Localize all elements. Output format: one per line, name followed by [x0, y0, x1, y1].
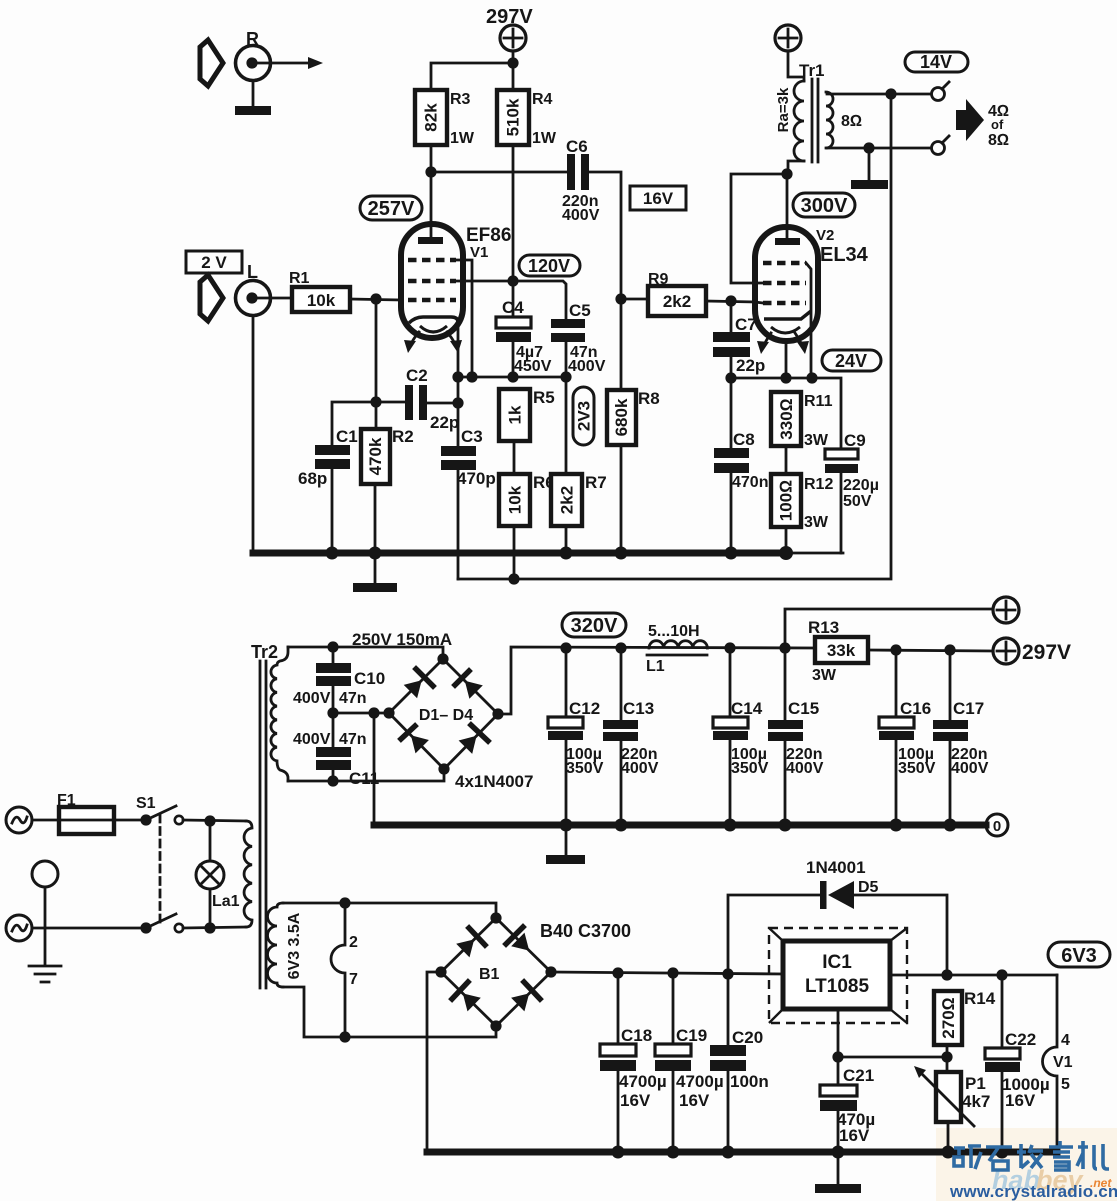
wire C8 leads: [730, 378, 733, 553]
wire fuse to switch: [114, 819, 145, 822]
svg-text:330Ω: 330Ω: [777, 398, 796, 439]
V2 heater arrow left: [757, 333, 771, 354]
V1 heater arrow right: [447, 332, 462, 353]
tube V2 EL34 envelope: [755, 227, 818, 341]
diode B1 bottom-left: [452, 982, 481, 1011]
diode B1 top-left: [456, 928, 485, 957]
node 2V label: [186, 251, 242, 273]
svg-text:www.crystalradio.cn: www.crystalradio.cn: [949, 1182, 1117, 1201]
svg-text:R2: R2: [392, 427, 414, 446]
wire R6 to feedback line: [513, 526, 516, 579]
diode D2 top-right: [455, 671, 483, 699]
svg-text:C12: C12: [569, 699, 600, 718]
svg-text:IC1: IC1: [822, 952, 852, 973]
node 0V output terminal: [986, 814, 1008, 836]
ground earth symbol: [29, 966, 61, 982]
capacitor C12 100u: [548, 699, 604, 777]
svg-text:350V: 350V: [566, 760, 604, 777]
svg-text:6V3 3.5A: 6V3 3.5A: [286, 912, 303, 979]
wire adj to R14-P1: [838, 1056, 947, 1059]
resistor R7 2k2: [551, 473, 607, 526]
capacitor C3 470p: [441, 427, 496, 488]
wire C11 leads: [332, 713, 335, 781]
capacitor C16 100u: [879, 699, 936, 777]
svg-text:6V3: 6V3: [1061, 945, 1097, 967]
svg-text:of: of: [991, 117, 1004, 132]
wire HV top to bridge: [288, 647, 443, 660]
svg-text:R8: R8: [638, 389, 660, 408]
resistor R2 470k: [361, 427, 414, 484]
watermark habpey: [992, 1165, 1112, 1195]
V2 grid g2: [763, 281, 806, 285]
wire 6V3 top to bridge B1: [283, 903, 496, 918]
wire cathode row: [458, 376, 566, 379]
node heater rail junctions: [612, 967, 733, 979]
svg-text:C18: C18: [621, 1026, 652, 1045]
wire R7 to bus: [565, 526, 568, 553]
svg-text:V1: V1: [1053, 1054, 1073, 1071]
svg-text:47n: 47n: [339, 690, 367, 707]
wire C21 leads: [837, 1057, 840, 1152]
svg-text:R11: R11: [804, 393, 833, 410]
svg-text:S1: S1: [136, 795, 156, 812]
V1 grid g3: [408, 258, 456, 262]
wire 6V3 bottom to bridge B1: [283, 987, 496, 1037]
node 297V supply: [486, 6, 533, 51]
capacitor C1 68p: [298, 427, 358, 488]
wire Tr1 primary bottom to anode node: [788, 161, 804, 174]
node 24V label: [822, 350, 881, 371]
node secondary ground tap: [863, 142, 874, 153]
wire R1 to V1 g1: [350, 299, 401, 300]
fuse F1: [57, 792, 114, 834]
svg-text:5...10H: 5...10H: [648, 623, 700, 640]
node 257V label: [360, 196, 422, 220]
wire g3 exit to drop: [456, 260, 472, 377]
capacitor C2 22p: [405, 366, 459, 432]
svg-text:82k: 82k: [422, 103, 441, 132]
V1 anode plate: [418, 237, 443, 244]
svg-text:14V: 14V: [920, 52, 952, 72]
output terminal top: [932, 82, 950, 101]
svg-text:400V: 400V: [293, 690, 331, 707]
svg-text:C4: C4: [502, 298, 524, 317]
wire bridge left to 0V bus: [373, 713, 376, 822]
wire screen strap to anode: [731, 174, 787, 283]
wire neutral to switch: [32, 927, 146, 930]
node 0V bus junctions: [560, 819, 957, 832]
V2 heater arc: [771, 327, 800, 333]
V1 heater pins 4-5: [1043, 975, 1073, 1152]
node bottom bus junctions: [612, 1146, 1009, 1159]
node g1 junction: [370, 293, 381, 304]
svg-text:B40 C3700: B40 C3700: [540, 921, 631, 941]
svg-text:C15: C15: [788, 699, 819, 718]
label V2 EL34: [816, 227, 869, 266]
svg-text:3W: 3W: [804, 514, 829, 531]
capacitor C18 4700u: [600, 1026, 667, 1110]
svg-text:10k: 10k: [307, 291, 336, 310]
node 6V3 label: [1048, 942, 1110, 967]
svg-text:0: 0: [993, 818, 1001, 835]
svg-text:1W: 1W: [450, 130, 475, 147]
node V2 heater junction bottom: [339, 1031, 350, 1042]
transformer Tr2 6V3 winding: [268, 903, 284, 987]
svg-text:257V: 257V: [368, 198, 415, 220]
transformer Tr2 core: [260, 661, 266, 988]
svg-text:320V: 320V: [571, 615, 618, 637]
resistor R5 1k: [499, 388, 555, 441]
wire C13 leads: [620, 648, 623, 825]
mains neutral terminal: [6, 915, 32, 941]
wire IC1 output rail: [890, 974, 1057, 977]
potentiometer P1 4k7: [914, 1066, 990, 1126]
svg-text:LT1085: LT1085: [805, 976, 870, 997]
svg-text:270Ω: 270Ω: [939, 997, 958, 1038]
svg-text:470k: 470k: [366, 437, 385, 475]
V2 anode plate: [775, 238, 800, 245]
svg-text:350V: 350V: [731, 760, 769, 777]
wire C12 leads: [565, 648, 568, 854]
wire g1 stub: [755, 302, 763, 303]
wire live to fuse: [32, 819, 59, 822]
heater 0V bus: [427, 1149, 1057, 1156]
svg-text:R1: R1: [289, 270, 310, 287]
node C2 junction right: [452, 397, 463, 408]
svg-text:2k2: 2k2: [558, 486, 577, 514]
switch S1 pole 1: [136, 795, 183, 826]
svg-text:R4: R4: [532, 91, 553, 108]
svg-text:R14: R14: [964, 989, 996, 1008]
wire 120V to C4: [512, 281, 515, 317]
svg-text:3W: 3W: [812, 667, 837, 684]
wire V2 anode up: [786, 174, 789, 238]
node V2 heater junction top: [339, 897, 350, 908]
svg-text:50V: 50V: [843, 493, 872, 510]
capacitor C10 47n: [293, 663, 385, 707]
wire IC1 adj pin: [837, 1009, 840, 1057]
svg-text:510k: 510k: [504, 98, 523, 136]
node cathode row junctions: [452, 371, 571, 382]
svg-text:16V: 16V: [679, 1091, 710, 1110]
node 14V label: [905, 52, 968, 72]
node R14-P1 junction: [941, 1051, 952, 1062]
wire node to R2: [375, 402, 378, 429]
node R6 feedback junction: [508, 573, 519, 584]
wire secondary bottom to terminal: [827, 147, 931, 150]
wire D5 bypass: [728, 895, 947, 975]
wire 120V to C5: [513, 281, 566, 319]
speaker arrow: [956, 99, 984, 141]
wire R14 to node: [946, 1045, 949, 1072]
transformer Tr1 secondary 8ohm: [826, 92, 833, 148]
ground symbol heater supply: [815, 1152, 861, 1193]
wire B+ to Tr1 primary: [788, 51, 804, 81]
node B1 corners: [435, 912, 556, 1031]
resistor R9 2k2: [648, 271, 706, 316]
wire feedback line: [458, 94, 891, 579]
svg-text:16V: 16V: [620, 1091, 651, 1110]
input terminal arrow R: [200, 40, 223, 86]
V1 grid g1: [408, 298, 456, 302]
wire C4 to cathode line: [512, 342, 515, 377]
svg-text:400V: 400V: [786, 760, 824, 777]
svg-text:4k7: 4k7: [962, 1092, 990, 1111]
svg-text:Tr1: Tr1: [799, 61, 825, 80]
wire HV bottom to bridge: [288, 769, 444, 781]
wire to R3: [431, 63, 513, 90]
svg-text:470p: 470p: [457, 469, 496, 488]
svg-text:Ra=3k: Ra=3k: [775, 87, 792, 132]
wire L jack to R1: [257, 297, 292, 300]
wire V2 cathode row: [731, 378, 841, 449]
wire C14 leads: [729, 648, 732, 825]
node 297V output terminal: [993, 638, 1071, 664]
watermark crystalradio title glyphs: [954, 1141, 1109, 1170]
wire R3 to anode node: [430, 145, 433, 172]
resistor R1 10k: [289, 270, 350, 312]
wire g2 exit to 120V node: [456, 280, 513, 283]
wire C9 to bus: [840, 473, 843, 553]
V2 heater pins 2-7: [331, 903, 358, 1037]
wire R9 to V2 g1: [706, 301, 755, 302]
svg-text:16V: 16V: [1005, 1091, 1036, 1110]
wire C2 left to C1: [332, 402, 405, 445]
resistor R3 82k: [415, 90, 475, 147]
wire C5 to R7: [565, 342, 568, 474]
regulator IC1 LT1085: [783, 941, 890, 1009]
resistor R13 33k: [808, 618, 868, 684]
ground symbol C12: [546, 855, 585, 864]
V2 heater arrow right: [795, 333, 809, 354]
svg-text:C11: C11: [349, 769, 379, 788]
ground bus top section: [253, 550, 787, 557]
capacitor C17 220n: [933, 699, 989, 777]
bridge rectifier D1-D4 frame: [389, 659, 498, 769]
ground symbol below R2: [353, 553, 397, 592]
svg-text:B1: B1: [479, 966, 500, 983]
resistor R6 10k: [499, 473, 555, 526]
switch S1 pole 2: [140, 914, 183, 934]
svg-text:4700µ: 4700µ: [676, 1072, 724, 1091]
svg-text:C22: C22: [1005, 1030, 1036, 1049]
svg-text:120V: 120V: [528, 256, 570, 276]
svg-text:4700µ: 4700µ: [619, 1072, 667, 1091]
node R3 branch junction: [507, 57, 518, 68]
node bridge corners: [383, 653, 503, 774]
node feedback tap: [885, 88, 896, 99]
node 120V label: [519, 255, 580, 276]
lamp La1: [196, 821, 240, 928]
wire g1 node down to C2 node: [375, 299, 378, 402]
wire C17 leads: [949, 650, 952, 825]
capacitor C21 470u: [820, 1066, 875, 1145]
svg-text:R5: R5: [533, 388, 555, 407]
wire C3 to feedback line: [457, 470, 460, 579]
capacitor C9 220u: [825, 431, 879, 510]
svg-text:C9: C9: [844, 431, 866, 450]
capacitor C14 100u: [713, 699, 769, 777]
regulator IC1 LT1085 heatsink outline: [769, 928, 907, 1023]
svg-text:300V: 300V: [801, 195, 848, 217]
svg-text:100n: 100n: [730, 1072, 769, 1091]
svg-text:2: 2: [349, 934, 358, 951]
capacitor C8 470n: [714, 430, 768, 491]
svg-text:C21: C21: [843, 1066, 874, 1085]
capacitor C13 220n: [603, 699, 659, 777]
V2 g3 internal connection: [806, 263, 811, 378]
svg-text:V1: V1: [470, 244, 488, 261]
svg-text:400V: 400V: [568, 358, 606, 375]
wire C10 leads: [332, 647, 335, 713]
bridge rectifier B1 frame: [441, 918, 551, 1026]
node bus junctions: [326, 546, 794, 560]
node 300V label: [793, 193, 855, 217]
wire C16 leads: [895, 650, 898, 825]
diode D4 bottom-right: [459, 725, 488, 754]
node V2 grid junction: [725, 295, 736, 306]
svg-text:EF86: EF86: [466, 225, 511, 246]
node 320V label: [562, 613, 626, 637]
svg-text:5: 5: [1061, 1076, 1070, 1093]
svg-text:400V: 400V: [293, 731, 331, 748]
svg-text:C16: C16: [900, 699, 931, 718]
capacitor C5 47n: [551, 301, 606, 375]
wire C20 leads: [727, 974, 730, 1152]
wire R12 to bus: [785, 527, 788, 553]
wire bridge out to 320V line: [498, 647, 815, 714]
svg-text:8Ω: 8Ω: [988, 132, 1009, 149]
label V1 EF86: [466, 225, 511, 261]
node ground branch junction: [368, 707, 379, 718]
svg-text:C3: C3: [461, 427, 483, 446]
svg-text:C20: C20: [732, 1028, 763, 1047]
diode B1 bottom-right: [511, 982, 540, 1011]
node cathode row junctions: [725, 372, 817, 383]
svg-text:350V: 350V: [898, 760, 936, 777]
svg-text:220µ: 220µ: [843, 477, 879, 494]
capacitor C19 4700u: [655, 1026, 724, 1110]
node V1 anode junction: [425, 166, 436, 177]
svg-text:16V: 16V: [643, 189, 674, 208]
wire R2 to bus: [374, 484, 377, 553]
wire 320V riser to B+ terminal: [785, 609, 993, 648]
svg-text:2 V: 2 V: [201, 253, 227, 272]
capacitor C4 4u7: [496, 298, 552, 375]
svg-text:C5: C5: [569, 301, 591, 320]
wire node to R8: [620, 299, 623, 390]
node Tr1 anode junction: [781, 168, 792, 179]
svg-text:P1: P1: [965, 1074, 986, 1093]
svg-text:33k: 33k: [827, 641, 856, 660]
svg-text:22p: 22p: [736, 356, 765, 375]
node R2 top junction: [370, 396, 381, 407]
wire C7 to cathode row: [730, 357, 733, 378]
wire R5 to R6: [513, 441, 516, 474]
svg-text:4: 4: [1061, 1032, 1070, 1049]
diode B1 top-right: [506, 927, 529, 951]
capacitor C11 47n: [293, 731, 379, 788]
switch S1 linkage: [159, 815, 162, 922]
wire C1 to bus: [331, 469, 334, 553]
RCA jack L: [236, 262, 271, 316]
svg-text:C19: C19: [676, 1026, 707, 1045]
svg-text:C13: C13: [623, 699, 654, 718]
svg-text:297V: 297V: [1022, 641, 1071, 664]
node 120V junction: [507, 275, 518, 286]
transformer Tr1 core: [812, 79, 818, 162]
svg-text:8Ω: 8Ω: [841, 113, 862, 130]
wire C18 leads: [617, 973, 620, 1152]
svg-text:D1– D4: D1– D4: [419, 707, 473, 724]
mains live terminal: [6, 807, 32, 833]
wire V1 anode up: [430, 172, 433, 238]
resistor R4 510k: [497, 90, 557, 147]
capacitor C22 1000u: [985, 1030, 1050, 1110]
svg-text:1N4001: 1N4001: [806, 858, 866, 877]
earth terminal: [32, 861, 58, 887]
0V bus PSU: [374, 822, 986, 829]
svg-text:10k: 10k: [506, 485, 525, 514]
wire R8 to bus: [620, 445, 623, 553]
V1 heater arc: [420, 326, 447, 332]
svg-text:680k: 680k: [612, 398, 631, 436]
svg-text:400V: 400V: [562, 207, 600, 224]
svg-text:47n: 47n: [339, 731, 367, 748]
wire L jack shield to bus: [252, 316, 255, 553]
svg-text:C17: C17: [953, 699, 984, 718]
svg-text:3W: 3W: [804, 432, 829, 449]
wire P1 to bus: [947, 1122, 950, 1152]
svg-text:470n: 470n: [732, 474, 768, 491]
svg-text:22p: 22p: [430, 413, 459, 432]
wire secondary top to terminal: [827, 93, 931, 96]
svg-text:4x1N4007: 4x1N4007: [455, 772, 533, 791]
wire B1 right to IC1: [551, 972, 783, 974]
wire midpoint to bridge left: [333, 712, 389, 715]
svg-text:1k: 1k: [506, 405, 525, 424]
node V2 grid leak junction: [615, 293, 626, 304]
transformer Tr2 HV secondary: [271, 647, 288, 781]
node Tr1 B+ terminal: [775, 25, 801, 51]
svg-text:400V: 400V: [951, 760, 989, 777]
svg-text:EL34: EL34: [820, 244, 869, 266]
diode D5 1N4001: [806, 858, 879, 909]
resistor R14 270R: [934, 989, 996, 1045]
svg-text:100Ω: 100Ω: [777, 480, 796, 521]
node HV bottom junction: [327, 775, 338, 786]
wire R13 to 297V terminal: [868, 650, 993, 651]
wire bus extension to C9: [787, 552, 843, 555]
resistor R8 680k: [607, 389, 660, 445]
svg-text:R12: R12: [804, 476, 833, 493]
svg-text:R7: R7: [585, 473, 607, 492]
V1 grid g2: [408, 279, 456, 283]
svg-text:Tr2: Tr2: [251, 642, 278, 662]
svg-text:L1: L1: [646, 658, 665, 675]
svg-text:R3: R3: [450, 91, 471, 108]
V2 grid g3: [763, 261, 806, 265]
svg-text:D5: D5: [858, 879, 879, 896]
svg-text:C2: C2: [406, 366, 428, 385]
node C10 top junction: [327, 641, 338, 652]
wire R jack shield: [252, 81, 255, 106]
label 4ohm of 8ohm: [988, 103, 1009, 149]
node lamp junction top: [204, 815, 215, 826]
svg-text:C10: C10: [354, 669, 385, 688]
wire cathode drop: [457, 320, 460, 446]
inductor L1: [646, 623, 707, 675]
